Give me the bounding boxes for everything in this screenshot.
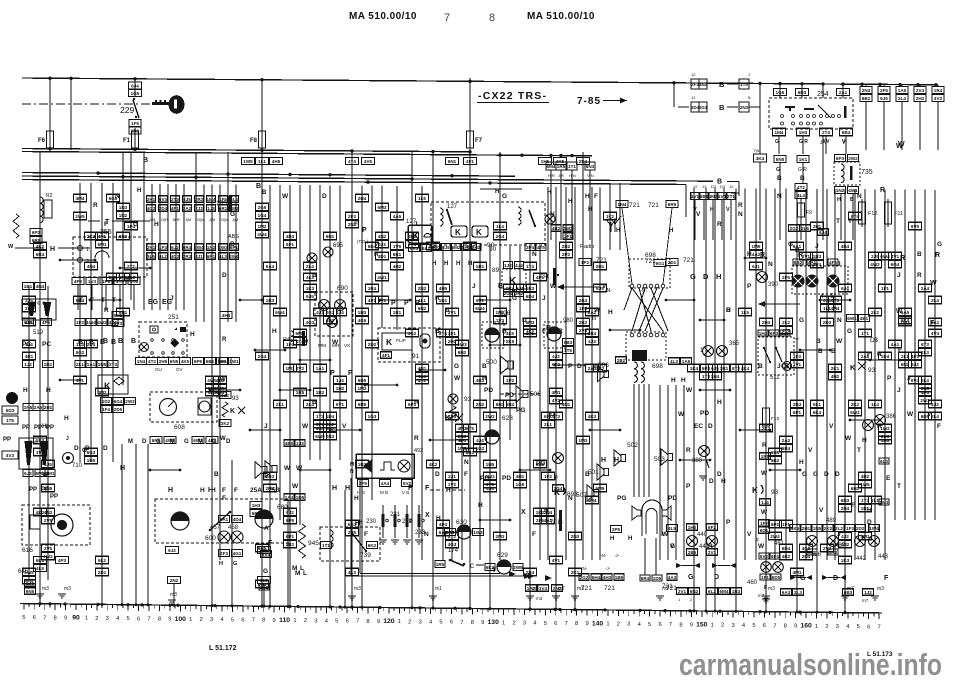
svg-text:1F1: 1F1 [782, 522, 790, 527]
svg-text:93: 93 [771, 489, 779, 496]
svg-text:492: 492 [414, 448, 423, 454]
svg-text:B: B [103, 338, 108, 345]
svg-text:H: H [585, 193, 590, 200]
svg-text:B: B [498, 283, 503, 290]
svg-text:1F3: 1F3 [846, 526, 854, 531]
svg-text:2R2: 2R2 [579, 320, 588, 325]
svg-text:P: P [348, 370, 353, 377]
svg-text:185: 185 [216, 200, 227, 207]
svg-text:616: 616 [22, 547, 33, 554]
svg-text:F: F [222, 487, 226, 494]
svg-text:6R5: 6R5 [32, 238, 41, 243]
svg-text:2L1: 2L1 [76, 362, 84, 367]
svg-text:W: W [454, 375, 461, 382]
svg-text:6T3: 6T3 [921, 342, 929, 347]
svg-text:893: 893 [567, 491, 578, 498]
svg-text:R: R [717, 221, 722, 228]
svg-text:PG: PG [536, 460, 545, 467]
svg-text:F: F [408, 485, 413, 492]
svg-text:127: 127 [406, 219, 417, 225]
svg-text:-N-: -N- [581, 566, 588, 571]
svg-text:2T4: 2T4 [109, 362, 117, 367]
svg-text:2G4: 2G4 [496, 234, 505, 239]
svg-text:4F5: 4F5 [829, 260, 837, 265]
svg-text:EG: EG [162, 299, 173, 306]
svg-text:4W1: 4W1 [377, 275, 387, 280]
svg-text:PLIP: PLIP [396, 338, 406, 343]
svg-text:2R3: 2R3 [183, 254, 192, 259]
svg-text:6D5: 6D5 [358, 378, 367, 383]
svg-text:H: H [120, 465, 125, 472]
svg-text:B: B [831, 348, 836, 355]
svg-text:V: V [829, 423, 834, 430]
svg-text:H: H [544, 508, 548, 514]
svg-text:6B2: 6B2 [862, 96, 871, 101]
svg-text:T: T [836, 218, 840, 225]
svg-text:1B1: 1B1 [476, 264, 485, 269]
svg-text:H: H [614, 457, 619, 464]
svg-text:2: 2 [200, 617, 203, 623]
svg-text:H: H [862, 437, 867, 444]
svg-text:1M2: 1M2 [258, 224, 267, 229]
svg-text:4L3: 4L3 [670, 359, 678, 364]
svg-text:6M5: 6M5 [596, 486, 605, 491]
svg-text:2G2: 2G2 [580, 575, 589, 580]
svg-text:B|R: B|R [173, 217, 180, 222]
svg-text:-J-: -J- [605, 566, 611, 571]
svg-text:2L4: 2L4 [931, 298, 939, 303]
svg-text:H: H [432, 261, 436, 267]
svg-text:PD: PD [480, 475, 489, 482]
svg-text:1F1: 1F1 [761, 575, 769, 580]
svg-text:M B: M B [380, 490, 388, 495]
svg-text:2H3: 2H3 [762, 320, 771, 325]
svg-text:1P2: 1P2 [581, 260, 590, 265]
svg-text:5: 5 [22, 615, 25, 621]
svg-text:7: 7 [460, 620, 463, 626]
svg-text:F: F [898, 347, 902, 354]
svg-text:6R1: 6R1 [207, 254, 216, 259]
svg-text:443: 443 [878, 554, 889, 560]
svg-text:L: L [300, 565, 304, 572]
svg-text:6M2: 6M2 [36, 471, 45, 476]
svg-text:W: W [907, 411, 914, 418]
svg-text:H: H [681, 377, 686, 384]
svg-text:2A5: 2A5 [34, 405, 43, 410]
svg-text:5: 5 [335, 618, 338, 624]
svg-text:6F1: 6F1 [286, 242, 294, 247]
svg-text:1V3: 1V3 [88, 279, 97, 284]
svg-text:1R4: 1R4 [368, 286, 377, 291]
svg-text:386: 386 [886, 414, 897, 420]
svg-text:4R2: 4R2 [782, 554, 791, 559]
svg-text:1F2: 1F2 [760, 521, 768, 526]
svg-text:W: W [220, 436, 226, 442]
svg-text:461: 461 [774, 541, 785, 547]
svg-text:2W5: 2W5 [513, 565, 523, 570]
svg-text:1P1: 1P1 [102, 279, 111, 284]
svg-text:2L4: 2L4 [921, 378, 929, 383]
svg-text:EG: EG [148, 299, 159, 306]
svg-text:2P2: 2P2 [562, 252, 571, 257]
svg-text:F: F [364, 531, 368, 538]
svg-text:6R5: 6R5 [668, 202, 677, 207]
svg-text:6J5: 6J5 [442, 245, 450, 250]
svg-text:25B: 25B [268, 487, 280, 494]
svg-text:H: H [154, 221, 159, 228]
svg-text:1M3: 1M3 [880, 500, 889, 505]
svg-text:K: K [412, 231, 420, 242]
svg-text:F6: F6 [38, 138, 46, 144]
svg-text:PP: PP [29, 487, 37, 493]
svg-text:2V5: 2V5 [44, 546, 53, 551]
svg-text:608: 608 [174, 424, 185, 431]
svg-text:1D5: 1D5 [296, 495, 305, 500]
svg-text:460: 460 [747, 580, 758, 586]
svg-text:D: D [226, 439, 231, 445]
svg-text:698: 698 [652, 363, 663, 370]
svg-text:6W4: 6W4 [194, 245, 204, 250]
svg-text:6L5: 6L5 [147, 254, 155, 259]
svg-text:980: 980 [563, 318, 574, 324]
svg-text:6K2: 6K2 [368, 543, 377, 548]
svg-text:4J1: 4J1 [195, 254, 203, 259]
svg-text:130: 130 [488, 619, 500, 626]
svg-text:506: 506 [530, 391, 541, 398]
svg-text:4M4: 4M4 [76, 196, 85, 201]
svg-text:1: 1 [815, 624, 818, 630]
svg-text:251: 251 [168, 314, 179, 321]
svg-text:H: H [208, 487, 213, 494]
svg-text:F: F [930, 320, 935, 327]
svg-text:1A1: 1A1 [316, 366, 325, 371]
svg-text:2: 2 [86, 259, 89, 265]
svg-text:1: 1 [85, 616, 88, 622]
svg-text:6J4: 6J4 [131, 84, 139, 89]
svg-text:N: N [532, 251, 537, 258]
svg-text:M: M [350, 462, 354, 468]
svg-text:6V2: 6V2 [760, 554, 769, 559]
svg-text:K: K [230, 408, 235, 415]
svg-text:1N3: 1N3 [119, 205, 128, 210]
svg-text:B: B [89, 339, 94, 346]
svg-text:2R3: 2R3 [793, 402, 802, 407]
svg-text:N: N [464, 459, 469, 466]
svg-text:2: 2 [95, 616, 98, 622]
svg-text:G: G [233, 561, 237, 567]
svg-text:1M4: 1M4 [207, 197, 216, 202]
svg-text:6W3: 6W3 [457, 342, 467, 347]
svg-text:6: 6 [346, 619, 349, 625]
svg-text:H G: H G [357, 490, 366, 495]
svg-text:B: B [719, 80, 725, 89]
svg-text:487: 487 [835, 543, 846, 549]
svg-text:2N2: 2N2 [553, 586, 562, 591]
svg-text:739: 739 [360, 552, 371, 559]
svg-text:W: W [896, 308, 903, 315]
svg-text:1N2: 1N2 [119, 213, 128, 218]
svg-text:1A2: 1A2 [527, 586, 536, 591]
svg-text:G: G [800, 575, 806, 582]
svg-text:2T1: 2T1 [727, 194, 735, 199]
svg-text:6M4: 6M4 [720, 589, 729, 594]
svg-text:W: W [845, 435, 852, 442]
svg-text:6L2: 6L2 [98, 558, 106, 563]
svg-text:F: F [937, 423, 941, 430]
svg-text:4W5: 4W5 [165, 438, 175, 443]
svg-text:4A3: 4A3 [668, 575, 677, 580]
svg-text:6W4: 6W4 [475, 306, 485, 311]
svg-text:R: R [798, 252, 803, 259]
svg-text:4L5: 4L5 [506, 331, 514, 336]
svg-text:2J2: 2J2 [931, 402, 939, 407]
svg-text:1N5: 1N5 [24, 405, 33, 410]
svg-text:R: R [686, 447, 691, 454]
svg-text:5: 5 [439, 620, 442, 626]
svg-text:D: D [85, 445, 90, 452]
svg-text:PC: PC [42, 341, 51, 348]
svg-text:J: J [542, 295, 546, 302]
svg-text:4T5: 4T5 [537, 245, 545, 250]
svg-text:519: 519 [33, 330, 44, 336]
svg-text:6T2: 6T2 [732, 366, 740, 371]
svg-text:D3: D3 [720, 184, 726, 189]
svg-text:2N3: 2N3 [862, 88, 871, 93]
svg-text:2: 2 [825, 624, 828, 630]
svg-text:1T5: 1T5 [564, 348, 572, 353]
svg-text:H: H [601, 457, 606, 464]
svg-text:W: W [282, 193, 289, 200]
svg-text:1H3: 1H3 [252, 503, 261, 508]
svg-text:440: 440 [697, 532, 708, 538]
svg-text:1H3: 1H3 [799, 130, 808, 135]
svg-text:4R1: 4R1 [25, 354, 34, 359]
svg-text:6W2: 6W2 [850, 410, 860, 415]
svg-text:6W4: 6W4 [275, 310, 285, 315]
svg-text:2P4: 2P4 [526, 245, 535, 250]
svg-text:4P4: 4P4 [439, 522, 448, 527]
svg-text:4B5: 4B5 [285, 441, 294, 446]
svg-text:G: G [263, 568, 268, 575]
svg-text:D: D [833, 575, 838, 582]
svg-text:F1: F1 [123, 138, 131, 144]
svg-text:R: R [935, 252, 940, 259]
svg-text:1M3: 1M3 [579, 438, 588, 443]
svg-text:1R4: 1R4 [934, 88, 943, 93]
svg-text:501: 501 [588, 469, 599, 476]
svg-text:F: F [532, 531, 536, 538]
svg-text:2H1: 2H1 [813, 224, 822, 229]
svg-text:6D1: 6D1 [760, 528, 769, 533]
svg-text:6G1: 6G1 [656, 261, 665, 266]
svg-text:2F1: 2F1 [448, 331, 456, 336]
svg-text:P: P [686, 483, 691, 490]
svg-text:4J3: 4J3 [378, 242, 386, 247]
svg-text:6J2: 6J2 [168, 548, 176, 553]
svg-text:9: 9 [481, 620, 484, 626]
svg-text:m3: m3 [42, 586, 49, 592]
svg-text:8: 8 [262, 618, 265, 624]
svg-text:6A1: 6A1 [220, 517, 229, 522]
svg-text:2W2: 2W2 [485, 414, 495, 419]
svg-text:626: 626 [500, 311, 511, 317]
svg-text:2T2: 2T2 [127, 264, 135, 269]
svg-text:R4: R4 [283, 337, 290, 343]
svg-text:2K2: 2K2 [515, 291, 524, 296]
svg-text:W: W [220, 377, 226, 383]
svg-text:6B3: 6B3 [564, 340, 573, 345]
svg-text:B: B [917, 251, 922, 258]
svg-text:695: 695 [333, 243, 344, 249]
svg-text:1M3: 1M3 [358, 386, 367, 391]
svg-text:1J2: 1J2 [24, 362, 32, 367]
svg-text:N: N [768, 261, 773, 268]
svg-text:4V1: 4V1 [552, 558, 561, 563]
svg-text:1B2: 1B2 [316, 390, 325, 395]
svg-text:G: G [502, 193, 507, 200]
svg-text:2W3: 2W3 [125, 399, 135, 404]
svg-text:7-85: 7-85 [577, 96, 601, 107]
svg-text:2H5: 2H5 [159, 359, 168, 364]
svg-text:F: F [464, 471, 468, 478]
svg-text:B: B [118, 338, 123, 345]
svg-text:8: 8 [489, 12, 495, 24]
svg-text:P: P [362, 227, 367, 234]
svg-text:6: 6 [241, 617, 244, 623]
svg-text:B: B [143, 157, 148, 164]
svg-text:III: III [592, 316, 596, 322]
svg-text:4P5: 4P5 [42, 320, 51, 325]
svg-text:1: 1 [293, 618, 296, 624]
svg-text:89: 89 [492, 267, 500, 274]
svg-text:J: J [815, 243, 819, 250]
svg-text:B: B [262, 190, 267, 196]
svg-text:1D2: 1D2 [102, 399, 111, 404]
svg-text:2M3: 2M3 [496, 534, 505, 539]
svg-text:PD: PD [668, 495, 677, 502]
svg-text:6V4: 6V4 [262, 552, 271, 557]
svg-text:1M4: 1M4 [775, 130, 784, 135]
svg-text:4K5: 4K5 [181, 359, 190, 364]
svg-text:2J1: 2J1 [448, 474, 456, 479]
svg-text:6K1: 6K1 [36, 558, 45, 563]
svg-text:2L4: 2L4 [306, 264, 314, 269]
svg-text:4B4: 4B4 [841, 244, 850, 249]
svg-text:6B5: 6B5 [358, 402, 367, 407]
svg-text:6B3: 6B3 [844, 590, 853, 595]
svg-text:F: F [884, 575, 889, 582]
svg-text:2D2: 2D2 [856, 526, 865, 531]
svg-text:2J3: 2J3 [195, 206, 203, 211]
svg-text:1D5: 1D5 [87, 458, 96, 463]
svg-text:6M4: 6M4 [547, 164, 556, 169]
svg-text:H: H [64, 415, 69, 422]
svg-text:4D1: 4D1 [378, 254, 387, 259]
svg-text:PP: PP [41, 487, 49, 493]
svg-text:6N5: 6N5 [26, 589, 35, 594]
svg-text:2N2: 2N2 [170, 578, 179, 583]
svg-text:4V1: 4V1 [891, 254, 900, 259]
svg-text:127: 127 [447, 204, 458, 210]
svg-text:6D2: 6D2 [432, 245, 441, 250]
svg-text:2: 2 [512, 620, 515, 626]
svg-text:4V3: 4V3 [934, 96, 943, 101]
svg-text:2R4: 2R4 [579, 298, 588, 303]
svg-text:m1: m1 [435, 586, 442, 592]
svg-text:G: G [688, 574, 694, 581]
svg-text:1D5: 1D5 [653, 576, 662, 581]
svg-text:2H2: 2H2 [472, 245, 481, 250]
svg-text:N: N [115, 193, 120, 200]
svg-text:4G2: 4G2 [171, 254, 180, 259]
svg-text:D: D [103, 445, 108, 452]
svg-text:2H4: 2H4 [841, 506, 850, 511]
svg-text:K: K [455, 228, 461, 237]
svg-text:H: H [46, 387, 51, 394]
svg-text:B: B [816, 338, 821, 345]
svg-text:1R1: 1R1 [393, 310, 402, 315]
svg-text:174: 174 [448, 548, 459, 554]
svg-text:2W5: 2W5 [75, 214, 85, 219]
svg-text:1A1: 1A1 [87, 362, 96, 367]
svg-text:2T5: 2T5 [526, 331, 534, 336]
svg-text:PD: PD [700, 410, 709, 417]
svg-text:PP: PP [3, 437, 11, 443]
svg-text:6V3: 6V3 [114, 321, 123, 326]
svg-text:1T1: 1T1 [861, 331, 869, 336]
svg-text:1R3: 1R3 [526, 286, 535, 291]
svg-text:6K2: 6K2 [486, 565, 495, 570]
svg-text:2A2: 2A2 [183, 206, 192, 211]
svg-text:4P2: 4P2 [74, 279, 83, 284]
svg-text:2V1: 2V1 [678, 589, 687, 594]
svg-text:1N2: 1N2 [207, 245, 216, 250]
svg-text:2W2: 2W2 [848, 156, 858, 161]
svg-text:4J3: 4J3 [588, 339, 596, 344]
svg-text:2K1: 2K1 [831, 366, 840, 371]
svg-text:7: 7 [669, 622, 672, 628]
svg-text:8: 8 [54, 615, 57, 621]
svg-text:710: 710 [72, 463, 83, 469]
svg-text:K: K [445, 413, 451, 422]
svg-text:4A4: 4A4 [381, 481, 390, 486]
svg-text:G: G [937, 241, 942, 248]
svg-text:6P3: 6P3 [770, 331, 779, 336]
svg-text:506: 506 [598, 362, 609, 369]
svg-text:1H3: 1H3 [358, 310, 367, 315]
svg-text:D: D [708, 423, 713, 430]
svg-text:6R4: 6R4 [641, 576, 650, 581]
svg-text:7: 7 [773, 623, 776, 629]
svg-text:2G2: 2G2 [221, 359, 230, 364]
svg-text:5: 5 [648, 622, 651, 628]
svg-text:G: G [670, 543, 675, 550]
svg-text:W: W [686, 387, 693, 394]
svg-text:6D5: 6D5 [772, 575, 781, 580]
svg-text:2K5: 2K5 [506, 339, 515, 344]
svg-text:H: H [721, 478, 726, 485]
svg-text:1H3: 1H3 [759, 331, 768, 336]
svg-text:E: E [886, 475, 891, 482]
svg-text:2L5: 2L5 [801, 226, 809, 231]
svg-text:D: D [703, 272, 709, 281]
svg-text:V: V [342, 423, 347, 430]
svg-text:6R1: 6R1 [393, 252, 402, 257]
svg-text:H: H [436, 515, 441, 522]
svg-text:G: G [184, 439, 189, 445]
svg-text:m3: m3 [354, 586, 361, 592]
svg-text:502: 502 [627, 442, 638, 449]
